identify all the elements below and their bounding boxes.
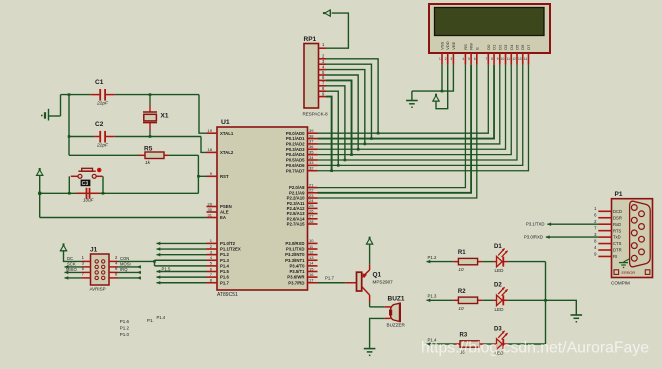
svg-text:ERROR: ERROR bbox=[622, 270, 636, 275]
svg-text:https://blog.csdn.net/AuroraFa: https://blog.csdn.net/AuroraFaye bbox=[421, 340, 649, 357]
wire P3.7 to Q1 base bbox=[318, 282, 357, 284]
svg-text:P1.: P1. bbox=[147, 318, 154, 323]
svg-text:P3.6/WR: P3.6/WR bbox=[287, 275, 305, 280]
svg-text:P1.1/T2EX: P1.1/T2EX bbox=[220, 247, 241, 252]
svg-text:IRQ: IRQ bbox=[120, 267, 128, 272]
svg-text:P0.4/AD4: P0.4/AD4 bbox=[286, 152, 305, 157]
svg-text:P1.3: P1.3 bbox=[220, 258, 229, 263]
svg-text:38: 38 bbox=[309, 133, 314, 138]
crystal X1 bbox=[143, 112, 157, 123]
svg-text:P3.3/INT1: P3.3/INT1 bbox=[285, 258, 305, 263]
P1 shell ground bbox=[619, 259, 630, 269]
svg-text:BUZZER: BUZZER bbox=[387, 323, 406, 328]
LED D3 bbox=[493, 330, 508, 349]
svg-text:P1.2: P1.2 bbox=[120, 326, 130, 331]
svg-text:RI: RI bbox=[613, 254, 617, 259]
svg-text:RS: RS bbox=[463, 44, 468, 50]
svg-text:LED: LED bbox=[495, 307, 505, 312]
wire gnd branch C2-R5 bbox=[68, 137, 70, 156]
wire power to J1 pin1 bbox=[64, 251, 82, 262]
P1 ERROR indicator bbox=[614, 270, 650, 275]
wire button right leg bbox=[102, 176, 104, 193]
power (RP1) bbox=[325, 10, 331, 16]
push button (reset) bbox=[71, 168, 103, 178]
svg-text:COMPIM: COMPIM bbox=[611, 281, 630, 286]
wire RP1 pullups to P0 bus bbox=[326, 59, 379, 172]
wire LCD VSS down bbox=[441, 65, 443, 91]
svg-text:P0.6/AD6: P0.6/AD6 bbox=[286, 163, 305, 168]
svg-text:33: 33 bbox=[309, 160, 314, 165]
svg-text:22pF: 22pF bbox=[96, 101, 109, 107]
wire reset row bbox=[40, 192, 199, 194]
svg-text:P1.6: P1.6 bbox=[120, 319, 130, 324]
power (J1) bbox=[60, 245, 66, 251]
wire ground to C1 row bbox=[60, 95, 62, 116]
svg-text:22pF: 22pF bbox=[96, 143, 109, 149]
wire crystal top lead bbox=[149, 95, 151, 112]
svg-text:P1: P1 bbox=[615, 191, 623, 198]
junction button right bbox=[102, 192, 105, 195]
junction power/reset row bbox=[38, 192, 41, 195]
ground (buzzer) bbox=[369, 348, 371, 350]
wire P1.2 to R1 bbox=[427, 260, 454, 264]
wire D2 to cathode bus bbox=[508, 299, 546, 301]
svg-text:R5: R5 bbox=[144, 146, 153, 153]
wire J1 pin2 to P1 bus bbox=[118, 260, 155, 262]
svg-text:SCK: SCK bbox=[67, 262, 76, 267]
svg-text:P3.0/RXD: P3.0/RXD bbox=[285, 241, 304, 246]
svg-text:D2: D2 bbox=[494, 283, 502, 289]
junction P1 bus fork bbox=[153, 260, 156, 263]
svg-text:Q1: Q1 bbox=[373, 272, 382, 279]
resistor R1 bbox=[453, 258, 482, 264]
svg-text:10: 10 bbox=[458, 267, 464, 272]
svg-text:37: 37 bbox=[309, 139, 314, 144]
U1 pin name labels bbox=[220, 131, 305, 286]
svg-text:RP1: RP1 bbox=[304, 36, 317, 43]
svg-text:ALE: ALE bbox=[220, 210, 229, 215]
svg-text:RxD: RxD bbox=[613, 222, 621, 227]
svg-text:1k: 1k bbox=[145, 160, 151, 166]
svg-text:16: 16 bbox=[309, 272, 314, 277]
svg-text:MPS2907: MPS2907 bbox=[373, 280, 394, 285]
J1 net labels bbox=[66, 256, 131, 272]
svg-text:10uF: 10uF bbox=[83, 197, 95, 202]
svg-text:P1.7: P1.7 bbox=[325, 275, 334, 280]
svg-text:P0.2/AD2: P0.2/AD2 bbox=[286, 142, 305, 147]
junction C2 row bbox=[68, 135, 71, 138]
svg-text:D2: D2 bbox=[497, 44, 502, 50]
svg-text:2: 2 bbox=[445, 57, 447, 61]
J1 right pin numbers bbox=[115, 255, 118, 277]
net label P1.4 (floating) bbox=[147, 315, 166, 323]
svg-text:CON: CON bbox=[120, 256, 129, 261]
svg-text:P1.4: P1.4 bbox=[220, 263, 229, 268]
junction VSS/VEE bbox=[441, 90, 444, 93]
ground (LEDs) bbox=[575, 314, 577, 316]
svg-text:13: 13 bbox=[309, 255, 314, 260]
wire R5 to RST bbox=[169, 155, 207, 193]
LED D1 bbox=[493, 248, 508, 267]
wire LCD VDD down bbox=[436, 65, 448, 109]
wire R5 left lead bbox=[69, 154, 139, 156]
svg-text:1: 1 bbox=[439, 57, 441, 61]
wire R3 to D3 bbox=[484, 343, 493, 345]
svg-text:P3.0/RXD: P3.0/RXD bbox=[524, 235, 543, 240]
wire LCD RS RW E to P2.0-P2.2 bbox=[318, 65, 477, 198]
transistor Q1 bbox=[357, 264, 370, 302]
C3 reference label (highlighted) bbox=[81, 180, 91, 187]
wire LCD VEE down bbox=[412, 65, 454, 91]
svg-text:5: 5 bbox=[468, 57, 470, 61]
wire LCD D0-D7 to P0 bus bbox=[318, 65, 529, 171]
svg-text:P3.1/TXD: P3.1/TXD bbox=[286, 247, 305, 252]
svg-text:RW: RW bbox=[469, 43, 474, 50]
svg-text:D3: D3 bbox=[503, 44, 508, 50]
U1 pin stubs bbox=[207, 133, 318, 283]
svg-text:VEE: VEE bbox=[451, 41, 456, 49]
svg-text:13: 13 bbox=[518, 57, 522, 61]
wire LED cathode bus bbox=[545, 262, 547, 344]
svg-text:P0.3/AD3: P0.3/AD3 bbox=[286, 147, 305, 152]
svg-text:VSS: VSS bbox=[440, 41, 445, 49]
P1 DB9 holes bbox=[631, 205, 644, 262]
IC U1 AT89C51 body bbox=[217, 127, 308, 290]
svg-text:VDD: VDD bbox=[445, 41, 450, 50]
svg-text:8: 8 bbox=[491, 57, 493, 61]
U1 pin numbers bbox=[208, 128, 315, 283]
resistor R2 bbox=[453, 297, 482, 303]
wire C1 row to XTAL1 bbox=[199, 95, 207, 134]
capacitor C3 bbox=[77, 188, 100, 199]
svg-text:18: 18 bbox=[208, 147, 213, 152]
junction RST bbox=[197, 175, 200, 178]
svg-text:D1: D1 bbox=[492, 44, 497, 50]
svg-text:4: 4 bbox=[462, 57, 464, 61]
LCD1 body bbox=[429, 4, 550, 53]
svg-text:30: 30 bbox=[208, 207, 213, 212]
svg-text:P1.7: P1.7 bbox=[220, 280, 229, 285]
svg-text:P1.4: P1.4 bbox=[157, 315, 166, 320]
svg-text:R3: R3 bbox=[460, 333, 468, 339]
wire button left leg bbox=[68, 176, 70, 193]
connector J1 body bbox=[91, 254, 110, 285]
svg-text:DCD: DCD bbox=[613, 209, 622, 214]
svg-text:P3.1/TXD: P3.1/TXD bbox=[526, 222, 545, 227]
svg-text:31: 31 bbox=[208, 212, 213, 217]
wire Q1 collector to buzzer bbox=[370, 302, 385, 307]
svg-text:P3.4/T0: P3.4/T0 bbox=[289, 263, 305, 268]
wire RXD to P1 TxD bbox=[546, 235, 599, 239]
svg-text:P1.0/T2: P1.0/T2 bbox=[220, 241, 236, 246]
wire C2 row bbox=[69, 136, 201, 138]
svg-text:D6: D6 bbox=[520, 44, 525, 50]
J1 left pin numbers bbox=[82, 255, 85, 277]
resistor R5 bbox=[139, 152, 169, 159]
svg-text:J1: J1 bbox=[90, 247, 98, 254]
svg-text:MISO: MISO bbox=[66, 267, 77, 272]
svg-text:TxD: TxD bbox=[613, 235, 621, 240]
wire power to reset row bbox=[39, 175, 41, 217]
svg-text:C3: C3 bbox=[82, 181, 89, 187]
power (reset) bbox=[37, 170, 43, 176]
svg-text:P0.0/AD0: P0.0/AD0 bbox=[286, 131, 305, 136]
svg-text:P3.2/INT0: P3.2/INT0 bbox=[285, 252, 305, 257]
svg-text:D0: D0 bbox=[486, 44, 491, 50]
svg-text:AVRISP: AVRISP bbox=[90, 287, 106, 292]
svg-text:XTAL2: XTAL2 bbox=[220, 150, 234, 155]
junction crystal top bbox=[149, 93, 152, 96]
svg-text:DTR: DTR bbox=[613, 248, 622, 253]
svg-text:DSR: DSR bbox=[613, 215, 622, 220]
junction cathode bus bbox=[544, 299, 547, 302]
wire P1 bus fork bbox=[154, 260, 156, 266]
wire C1 row bbox=[61, 94, 200, 96]
svg-text:3: 3 bbox=[450, 57, 452, 61]
svg-text:36: 36 bbox=[309, 144, 314, 149]
wire C2 row to XTAL2 bbox=[201, 137, 207, 153]
wire cathode bus to ground bbox=[546, 300, 577, 315]
LED D2 bbox=[493, 287, 508, 306]
svg-text:DC: DC bbox=[67, 256, 73, 261]
J1 pins bbox=[81, 260, 118, 280]
svg-text:12: 12 bbox=[512, 57, 516, 61]
ground (crystal caps) bbox=[41, 109, 61, 121]
svg-text:P2.7/A15: P2.7/A15 bbox=[287, 222, 306, 227]
svg-text:15: 15 bbox=[309, 266, 314, 271]
svg-text:RST: RST bbox=[220, 174, 229, 179]
LCD1 screen bbox=[435, 8, 545, 36]
power (Q1) bbox=[366, 239, 372, 245]
junction C1 row / gnd branch bbox=[68, 93, 71, 96]
svg-text:39: 39 bbox=[309, 128, 314, 133]
svg-text:P0.5/AD5: P0.5/AD5 bbox=[286, 158, 305, 163]
svg-text:P1.5: P1.5 bbox=[162, 266, 171, 271]
J1 right wires bbox=[118, 265, 141, 280]
wire EA row bbox=[40, 217, 207, 219]
svg-text:AT89C51: AT89C51 bbox=[217, 292, 238, 298]
wire D1 to cathode bus bbox=[508, 261, 546, 263]
svg-text:34: 34 bbox=[309, 155, 314, 160]
svg-text:XTAL1: XTAL1 bbox=[220, 131, 234, 136]
svg-text:X1: X1 bbox=[161, 113, 169, 120]
svg-text:RTS: RTS bbox=[613, 228, 622, 233]
svg-text:7: 7 bbox=[485, 57, 487, 61]
svg-text:R2: R2 bbox=[458, 289, 466, 295]
svg-text:P1.2: P1.2 bbox=[428, 255, 437, 260]
svg-text:D1: D1 bbox=[494, 244, 502, 250]
svg-text:PSEN: PSEN bbox=[220, 204, 232, 209]
LCD pin stubs and numbers bbox=[439, 53, 528, 65]
svg-text:12: 12 bbox=[309, 249, 314, 254]
svg-text:11: 11 bbox=[507, 57, 511, 61]
wire P1 port bundle bbox=[155, 242, 207, 285]
resistor R3 bbox=[455, 341, 484, 347]
svg-text:D3: D3 bbox=[494, 326, 502, 332]
svg-text:32: 32 bbox=[309, 166, 314, 171]
wire P1.4 to R3 bbox=[427, 342, 455, 346]
svg-text:14: 14 bbox=[309, 261, 314, 266]
wire TXD to P1 RxD bbox=[547, 222, 598, 226]
ground (LCD) bbox=[406, 91, 418, 108]
svg-text:C1: C1 bbox=[95, 79, 104, 86]
svg-text:10: 10 bbox=[309, 238, 314, 243]
resistor pack RP1 body bbox=[304, 44, 319, 109]
svg-text:CTS: CTS bbox=[613, 241, 622, 246]
connector P1 body (COMPIM) bbox=[612, 199, 653, 278]
svg-text:10: 10 bbox=[501, 57, 505, 61]
svg-text:P1.0: P1.0 bbox=[120, 332, 130, 337]
capacitor C2 bbox=[94, 131, 115, 143]
capacitor C1 bbox=[90, 89, 115, 101]
svg-text:C2: C2 bbox=[95, 121, 104, 128]
svg-text:MOSI: MOSI bbox=[120, 262, 131, 267]
svg-text:P3.7/RD: P3.7/RD bbox=[288, 280, 304, 285]
wire R2 to D2 bbox=[482, 299, 493, 301]
wire R1 to D1 bbox=[482, 261, 493, 263]
wire Q1 emitter to power bbox=[369, 244, 371, 264]
svg-text:14: 14 bbox=[524, 57, 528, 61]
power (LCD VDD) bbox=[433, 96, 439, 102]
svg-text:E: E bbox=[474, 47, 479, 50]
svg-text:U1: U1 bbox=[221, 119, 230, 126]
svg-text:P1.5: P1.5 bbox=[220, 269, 229, 274]
RP1 pins bbox=[319, 42, 327, 97]
svg-text:EA: EA bbox=[220, 215, 226, 220]
svg-text:BUZ1: BUZ1 bbox=[388, 296, 405, 303]
J1 left wires bbox=[65, 265, 82, 280]
svg-text:35: 35 bbox=[309, 149, 314, 154]
svg-text:P0.7/AD7: P0.7/AD7 bbox=[286, 168, 305, 173]
svg-text:LED: LED bbox=[495, 268, 505, 273]
svg-text:19: 19 bbox=[208, 128, 213, 133]
svg-text:17: 17 bbox=[309, 278, 314, 283]
buzzer BUZ1 bbox=[385, 303, 400, 322]
svg-text:P1.2: P1.2 bbox=[220, 252, 229, 257]
svg-text:D4: D4 bbox=[509, 44, 514, 50]
wire P1.3 to R2 bbox=[427, 299, 454, 303]
svg-text:6: 6 bbox=[474, 57, 476, 61]
svg-text:R1: R1 bbox=[458, 250, 466, 256]
svg-text:D7: D7 bbox=[526, 44, 531, 50]
junction crystal bottom bbox=[149, 135, 152, 138]
svg-text:9: 9 bbox=[497, 57, 499, 61]
P1 DB9 shell bbox=[630, 201, 651, 267]
wire D3 to cathode bus bbox=[508, 343, 546, 345]
wire gnd branch C1-C2 bbox=[68, 95, 70, 137]
LCD pin name labels bbox=[440, 41, 531, 50]
svg-text:29: 29 bbox=[208, 201, 213, 206]
wire crystal bottom lead bbox=[149, 123, 151, 137]
junction button left bbox=[68, 192, 71, 195]
svg-text:P1.6: P1.6 bbox=[220, 275, 229, 280]
svg-text:P3.5/T1: P3.5/T1 bbox=[289, 269, 305, 274]
svg-text:28: 28 bbox=[309, 219, 314, 224]
svg-text:D5: D5 bbox=[515, 44, 520, 50]
svg-text:P0.1/AD1: P0.1/AD1 bbox=[286, 136, 305, 141]
svg-text:RESPACK-8: RESPACK-8 bbox=[303, 112, 329, 117]
svg-text:10: 10 bbox=[458, 306, 464, 311]
P1 pins bbox=[594, 206, 622, 259]
button indicator lamp bbox=[97, 168, 102, 173]
wire RP1 pin1 to power bbox=[326, 13, 348, 48]
svg-text:P1.3: P1.3 bbox=[428, 294, 437, 299]
wire buzzer to ground bbox=[370, 318, 385, 348]
